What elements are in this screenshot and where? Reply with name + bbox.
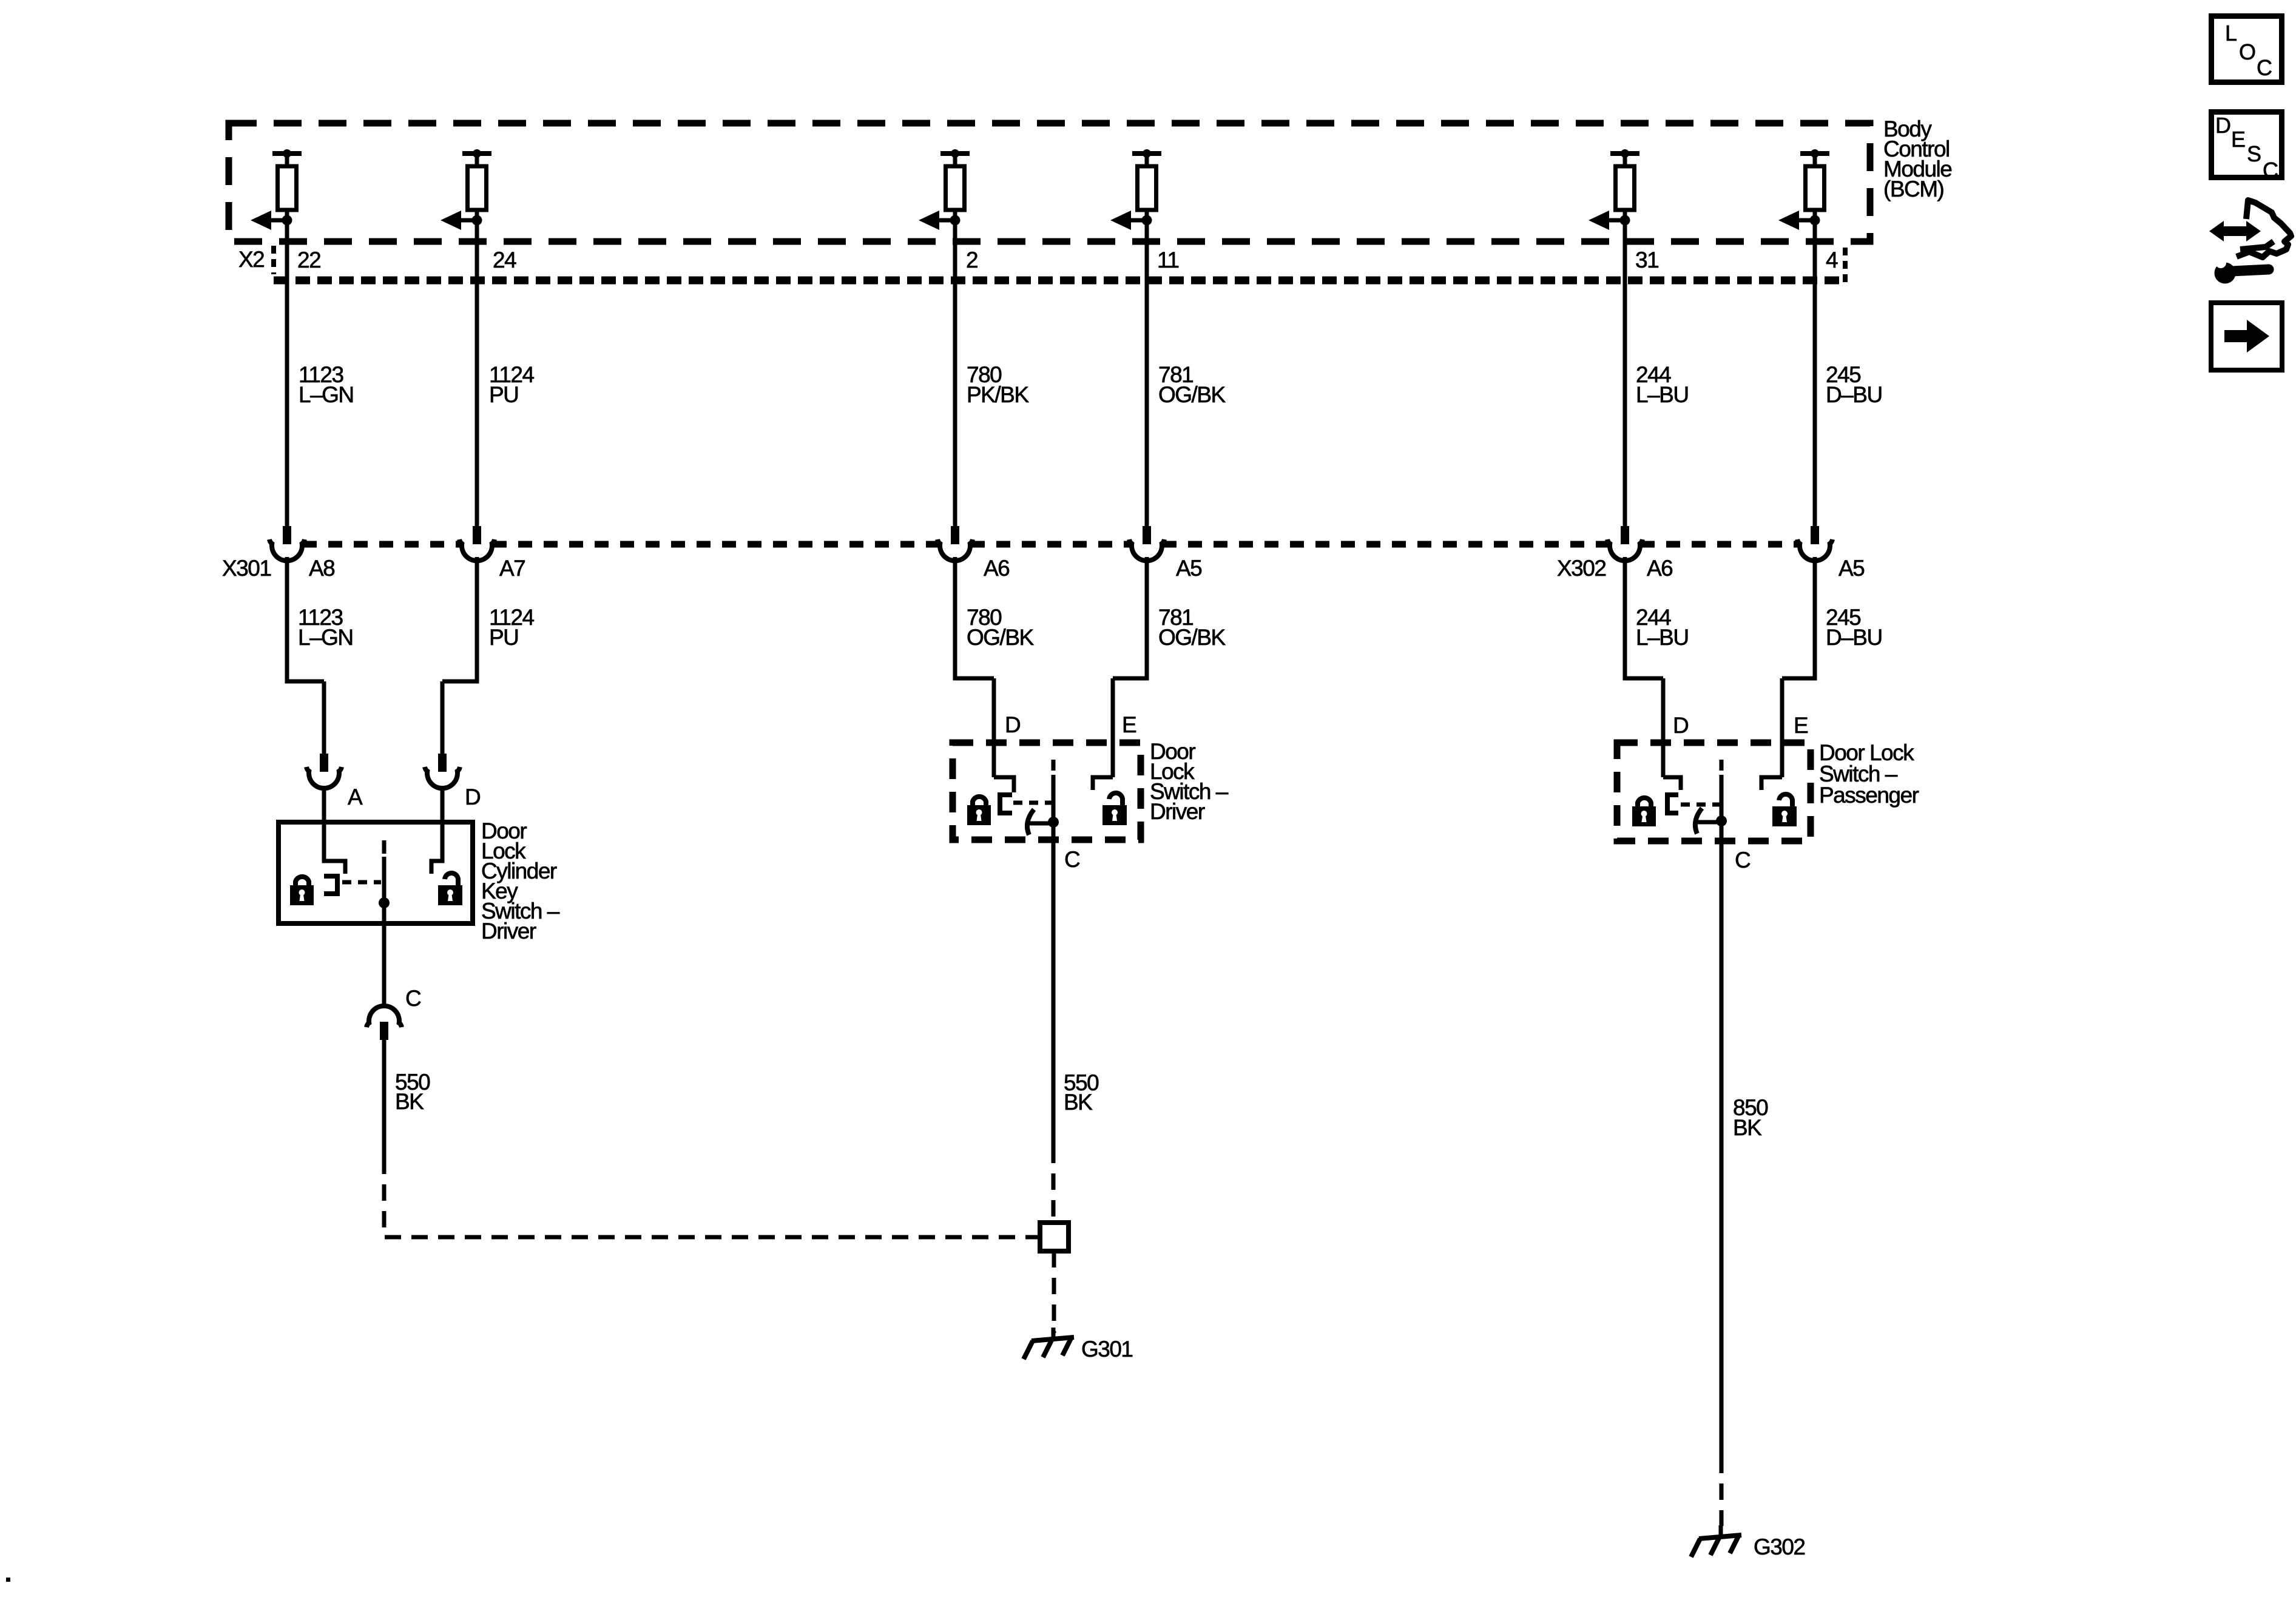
- node K9-2 junction dot: [950, 215, 961, 226]
- wire pin D into box: [431, 789, 442, 874]
- connector cup X301-A6: [937, 539, 973, 561]
- Body Control Module (BCM) dashed outline: [229, 123, 1870, 241]
- wire K9-22 BCM to inline connector: [285, 220, 289, 527]
- svg-text:L–GN: L–GN: [299, 382, 354, 407]
- connector X2 separator dash: [271, 246, 276, 274]
- wire 1124 jog segment: [442, 557, 477, 681]
- svg-text:A5: A5: [1838, 556, 1865, 581]
- wire 1124 down to key switch pin D: [441, 681, 445, 755]
- switch lever vertical (passenger switch): [1720, 775, 1724, 821]
- ground G301: [1052, 1328, 1056, 1338]
- wrench of diagnostic icon: [2215, 263, 2236, 284]
- connector cup X302-A5: [1797, 539, 1832, 561]
- wire K9-4 resistor to junction: [1813, 210, 1817, 222]
- resistor K9-24: [475, 154, 479, 168]
- wire pin A into box: [324, 789, 345, 874]
- svg-text:L–GN: L–GN: [298, 625, 353, 650]
- svg-text:X301: X301: [222, 556, 271, 581]
- node K9-24 junction dot: [472, 215, 482, 226]
- wire 1123 jog segment: [287, 557, 324, 681]
- connector pin X301-A6: [951, 526, 959, 544]
- wire 850 BK dashed to ground: [1720, 1457, 1724, 1526]
- svg-text:OG/BK: OG/BK: [967, 625, 1035, 650]
- svg-text:Driver: Driver: [481, 919, 536, 943]
- closed padlock icon (lock position driver switch): [967, 797, 991, 825]
- svg-text:Driver: Driver: [1150, 799, 1205, 824]
- DESC icon box: [2212, 112, 2282, 178]
- connector cup X301-A5: [1129, 539, 1164, 561]
- LOC icon box: [2212, 16, 2282, 83]
- wire dashed splice to ground: [1052, 1251, 1056, 1333]
- wire K9-31 resistor to junction: [1623, 210, 1627, 222]
- wire 550 BK dashed to splice: [1052, 1147, 1056, 1223]
- svg-text:X2: X2: [238, 247, 264, 272]
- lever linkage dash (driver switch): [1052, 760, 1056, 771]
- wire 781 jog segment: [1113, 557, 1147, 678]
- svg-text:24: 24: [493, 248, 516, 272]
- wire 550 BK dashed run: [384, 1158, 1040, 1237]
- svg-text:Passenger: Passenger: [1819, 783, 1919, 808]
- svg-text:E: E: [2231, 127, 2246, 152]
- wire K9-31 BCM to inline connector: [1623, 220, 1627, 527]
- wire 780 into door lock switch driver pin D: [992, 678, 996, 777]
- BCM driver terminal bar K9-31: [1610, 151, 1639, 156]
- svg-text:C: C: [1064, 847, 1080, 872]
- svg-text:E: E: [1122, 712, 1136, 737]
- wire 850 BK (passenger switch): [1720, 821, 1724, 1457]
- wire 244 into door lock switch passenger pin D: [1661, 678, 1666, 777]
- svg-text:C: C: [1735, 848, 1751, 872]
- svg-text:A7: A7: [499, 556, 525, 581]
- svg-text:O: O: [2239, 39, 2256, 64]
- switch lever vertical (driver switch): [1052, 775, 1056, 822]
- resistor K9-31: [1623, 154, 1627, 168]
- unlock contact stub E (passenger switch): [1761, 777, 1782, 790]
- lock contact stub D (driver switch): [994, 777, 1014, 792]
- wire 1123 down to key switch pin A: [322, 681, 326, 755]
- closed padlock icon (lock position passenger switch): [1632, 798, 1656, 826]
- svg-text:X302: X302: [1557, 556, 1606, 581]
- wire K9-24 resistor to junction: [475, 210, 479, 222]
- connector pin X301-A8: [283, 526, 291, 544]
- BCM driver terminal bar K9-24: [462, 151, 491, 156]
- node K9-11 junction dot: [1142, 215, 1152, 226]
- resistor K9-22: [285, 154, 289, 168]
- svg-text:D–BU: D–BU: [1826, 382, 1882, 407]
- inline connector row dashed line: [303, 541, 461, 548]
- svg-text:A: A: [348, 785, 363, 809]
- switch lever arc (driver switch): [1027, 809, 1034, 835]
- resistor K9-2: [953, 154, 957, 168]
- wire 550 BK (driver switch): [1052, 822, 1056, 1147]
- svg-text:(BCM): (BCM): [1883, 177, 1944, 201]
- node K9-31 junction dot: [1620, 215, 1630, 226]
- wire K9-24 BCM to inline connector: [475, 220, 479, 527]
- mechanical linkage dashes (passenger switch): [1681, 803, 1721, 807]
- Door Lock Switch - Driver dashed box: [953, 743, 1141, 840]
- connector cup C (mirrored): [366, 1006, 402, 1027]
- wire 780 jog segment: [955, 557, 994, 678]
- svg-text:A8: A8: [309, 556, 334, 581]
- svg-text:BK: BK: [1064, 1090, 1093, 1115]
- wire K9-22 resistor to junction: [285, 210, 289, 222]
- ground G302: [1719, 1525, 1723, 1536]
- svg-text:G302: G302: [1754, 1534, 1805, 1559]
- svg-text:22: 22: [297, 248, 320, 272]
- svg-text:31: 31: [1635, 248, 1658, 272]
- BCM driver terminal bar K9-11: [1132, 151, 1161, 156]
- svg-text:C: C: [405, 986, 421, 1011]
- svg-text:L–BU: L–BU: [1636, 382, 1689, 407]
- wire 550 BK (key switch to splice): [382, 1040, 387, 1158]
- connector cup X301-A7: [459, 539, 495, 561]
- wire K9-11 resistor to junction: [1145, 210, 1149, 222]
- arrow (BCM output sense) K9-4: [1799, 218, 1815, 223]
- svg-text:C: C: [2257, 55, 2272, 80]
- svg-text:C: C: [2263, 158, 2278, 183]
- svg-text:D: D: [1673, 713, 1688, 738]
- unlock contact stub E (driver switch): [1093, 777, 1113, 790]
- switch lever (key switch): [382, 857, 387, 903]
- svg-text:11: 11: [1157, 248, 1178, 272]
- mechanical linkage dashes (key switch): [342, 880, 381, 885]
- svg-text:D–BU: D–BU: [1826, 625, 1882, 650]
- svg-text:A5: A5: [1176, 556, 1202, 581]
- svg-text:D: D: [2215, 113, 2231, 138]
- BCM driver terminal bar K9-22: [272, 151, 302, 156]
- wire 245 into door lock switch passenger pin E: [1780, 678, 1784, 777]
- svg-text:OG/BK: OG/BK: [1158, 625, 1226, 650]
- connector X2 row dotted line: [274, 277, 1845, 285]
- svg-text:G301: G301: [1081, 1337, 1133, 1362]
- connector pin X301-A5: [1143, 526, 1151, 544]
- connector pin X301-A7: [473, 526, 481, 544]
- svg-text:PU: PU: [489, 625, 518, 650]
- svg-text:S: S: [2247, 141, 2261, 166]
- svg-text:PK/BK: PK/BK: [967, 382, 1029, 407]
- lock-side fixed contact (driver switch): [1000, 795, 1012, 813]
- resistor K9-11: [1145, 154, 1149, 168]
- svg-text:D: D: [1005, 712, 1020, 737]
- wire 781 into door lock switch driver pin E: [1111, 678, 1115, 777]
- wire K9-4 BCM to inline connector: [1813, 220, 1817, 527]
- resistor K9-4: [1813, 154, 1817, 168]
- connector pin X302-A6: [1621, 526, 1629, 544]
- svg-text:4: 4: [1826, 248, 1838, 272]
- connector cup X302-A6: [1607, 539, 1643, 561]
- node K9-4 junction dot: [1810, 215, 1820, 226]
- svg-text:BK: BK: [395, 1089, 424, 1114]
- wire K9-2 resistor to junction: [953, 210, 957, 222]
- arrow (BCM output sense) K9-11: [1131, 218, 1147, 223]
- wire 245 jog segment: [1782, 557, 1815, 678]
- forward arrow icon box: [2211, 303, 2282, 370]
- wire K9-2 BCM to inline connector: [953, 220, 957, 527]
- svg-text:PU: PU: [489, 382, 518, 407]
- stray dot bottom-left: [6, 1578, 10, 1582]
- connector cup key switch D: [425, 767, 460, 788]
- svg-text:L: L: [2225, 21, 2237, 46]
- closed padlock icon (lock position): [290, 877, 314, 905]
- BCM driver terminal bar K9-4: [1800, 151, 1829, 156]
- lever arm to pivot (driver switch): [1030, 822, 1053, 826]
- svg-text:A6: A6: [1647, 556, 1672, 581]
- arrow (BCM output sense) K9-31: [1609, 218, 1625, 223]
- double arrow of diagnostic icon: [2220, 226, 2251, 236]
- pivot node (passenger switch): [1716, 815, 1727, 826]
- lever linkage dash (passenger switch): [1720, 760, 1724, 771]
- lever arm to pivot (passenger switch): [1698, 820, 1721, 825]
- pivot node (driver switch): [1048, 817, 1059, 828]
- svg-text:E: E: [1794, 713, 1808, 738]
- svg-text:2: 2: [966, 248, 977, 272]
- splice junction box: [1040, 1223, 1069, 1251]
- BCM driver terminal bar K9-2: [940, 151, 970, 156]
- svg-text:BK: BK: [1733, 1115, 1762, 1140]
- connector pin key switch A: [320, 754, 328, 772]
- connector X2 right separator dash: [1843, 248, 1848, 282]
- connector cup X301-A8: [269, 539, 305, 561]
- open padlock icon (unlock position): [438, 873, 462, 905]
- connector pin X302-A5: [1811, 526, 1819, 544]
- lever linkage dash (key switch): [382, 840, 387, 854]
- arrow (BCM output sense) K9-24: [461, 218, 477, 223]
- connector pin key switch D: [438, 754, 447, 772]
- lock-side fixed contact (passenger switch): [1667, 795, 1678, 813]
- wire C output of key switch: [382, 903, 387, 1007]
- Door Lock Switch - Passenger dashed box: [1617, 743, 1811, 841]
- node K9-22 junction dot: [282, 215, 292, 226]
- arrow (BCM output sense) K9-2: [939, 218, 955, 223]
- svg-text:D: D: [465, 785, 480, 809]
- forward arrow: [2224, 330, 2247, 342]
- svg-text:OG/BK: OG/BK: [1158, 382, 1226, 407]
- pivot node (key switch): [379, 897, 390, 908]
- wire K9-11 BCM to inline connector: [1145, 220, 1149, 527]
- wire 244 jog segment: [1625, 557, 1663, 678]
- diagnostic hand/wrench icon: [2237, 200, 2291, 257]
- open padlock icon (unlock position driver switch): [1102, 793, 1127, 825]
- svg-text:L–BU: L–BU: [1636, 625, 1689, 650]
- arrow (BCM output sense) K9-22: [271, 218, 287, 223]
- connector cup key switch A: [306, 767, 342, 788]
- connector pin C: [380, 1022, 388, 1040]
- switch lever arc (passenger switch): [1695, 808, 1702, 834]
- lock-side fixed contact (key switch): [324, 876, 337, 894]
- Door Lock Cylinder Key Switch - Driver box: [279, 822, 473, 923]
- open padlock icon (unlock position passenger switch): [1772, 794, 1797, 826]
- svg-text:A6: A6: [984, 556, 1009, 581]
- lock contact stub D (passenger switch): [1663, 777, 1681, 790]
- mechanical linkage dashes (driver switch): [1013, 801, 1053, 805]
